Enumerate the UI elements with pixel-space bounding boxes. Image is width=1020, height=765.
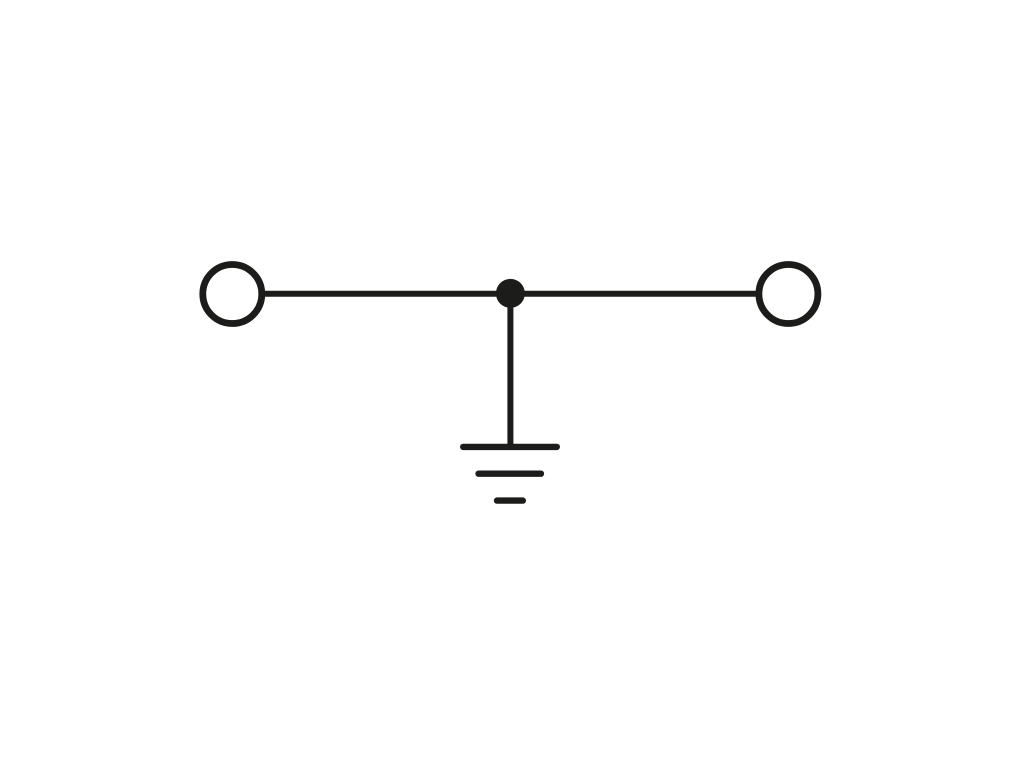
wire: center junction to right terminal: [510, 291, 756, 297]
wire: left terminal to center junction: [265, 291, 511, 297]
junction (solder dot node): [496, 279, 525, 308]
ground (earth symbol): [463, 447, 557, 501]
wire: junction down to ground: [507, 294, 513, 447]
terminal circle right (terminal 2): [759, 265, 818, 324]
terminal circle left (terminal 1): [203, 265, 262, 324]
